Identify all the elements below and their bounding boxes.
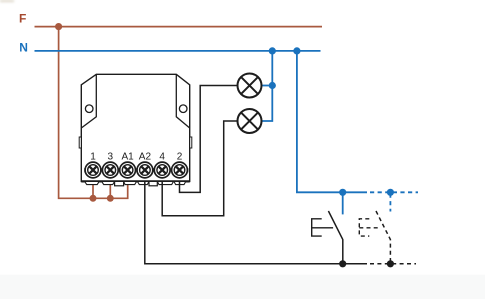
svg-text:A1: A1 xyxy=(121,152,134,163)
terminal labels 1 3 A1 A2 4 2 xyxy=(90,152,183,163)
svg-text:2: 2 xyxy=(177,152,183,163)
wire terminal 2 to lamp E1 xyxy=(180,86,238,193)
wire stub terminal 3 xyxy=(109,181,111,198)
svg-text:N: N xyxy=(19,40,28,54)
node N label xyxy=(19,40,28,54)
wire switch S2 supply stub dashed xyxy=(389,194,391,212)
wire switch common dashed extension xyxy=(370,263,416,265)
push-button S1 actuator xyxy=(312,219,333,236)
terminal screw 4 xyxy=(154,162,170,178)
relay module mounting hole right xyxy=(179,105,187,113)
relay module feet xyxy=(85,181,186,184)
node F label xyxy=(19,12,26,26)
relay module clip right xyxy=(149,181,157,185)
relay module side tab left xyxy=(79,137,81,148)
terminal screw A2 xyxy=(137,162,153,178)
lamp E2 xyxy=(238,109,262,133)
junction dot N to lamps xyxy=(269,47,276,54)
relay module U1 body xyxy=(81,74,189,181)
junction dot switch S2 top xyxy=(387,189,394,196)
wire neutral to lamp1 and lamp2 xyxy=(262,51,273,121)
junction dot terminal 3 feed xyxy=(107,195,114,202)
junction dot switch S2 bottom xyxy=(387,260,394,267)
wire F drop to module xyxy=(59,27,128,199)
push-button S2 actuator dashed xyxy=(359,219,380,236)
footer band xyxy=(0,275,485,299)
push-button S2 contact lever dashed xyxy=(376,211,390,261)
junction dot lamp1 neutral xyxy=(269,82,276,89)
junction dot N to switches xyxy=(293,47,300,54)
svg-text:4: 4 xyxy=(159,152,165,163)
wire lamp1 to neutral xyxy=(262,85,273,87)
junction dot on F line xyxy=(55,23,62,30)
terminal screw 3 xyxy=(102,162,118,178)
svg-text:A2: A2 xyxy=(139,152,152,163)
wire F phase line xyxy=(35,26,323,28)
relay module side tab right xyxy=(190,137,192,148)
relay module mounting hole left xyxy=(85,105,93,113)
terminal cage nubs xyxy=(84,168,189,172)
svg-text:3: 3 xyxy=(108,152,114,163)
relay module clip left xyxy=(115,181,124,185)
svg-text:F: F xyxy=(19,12,26,26)
svg-text:1: 1 xyxy=(90,152,96,163)
junction dot terminal 1 feed xyxy=(90,195,97,202)
wire terminal A2 to switch common xyxy=(145,181,367,263)
wire stub terminal 1 xyxy=(92,181,94,198)
wire switch S1 supply stub xyxy=(342,192,344,214)
wire neutral dashed extension xyxy=(370,191,418,193)
wire N neutral line xyxy=(35,50,321,52)
junction dot switch S1 top xyxy=(339,189,346,196)
lamp E1 xyxy=(238,74,262,98)
wire neutral to switch line xyxy=(297,51,367,192)
terminal screw 2 xyxy=(172,162,188,178)
wire terminal 4 to lamp E2 xyxy=(162,121,237,216)
push-button S1 contact lever xyxy=(328,211,342,264)
junction dot switch S1 bottom xyxy=(339,260,346,267)
terminal screw 1 xyxy=(85,162,101,178)
top edge artifact xyxy=(0,0,14,2)
terminal screw A1 xyxy=(120,162,136,178)
